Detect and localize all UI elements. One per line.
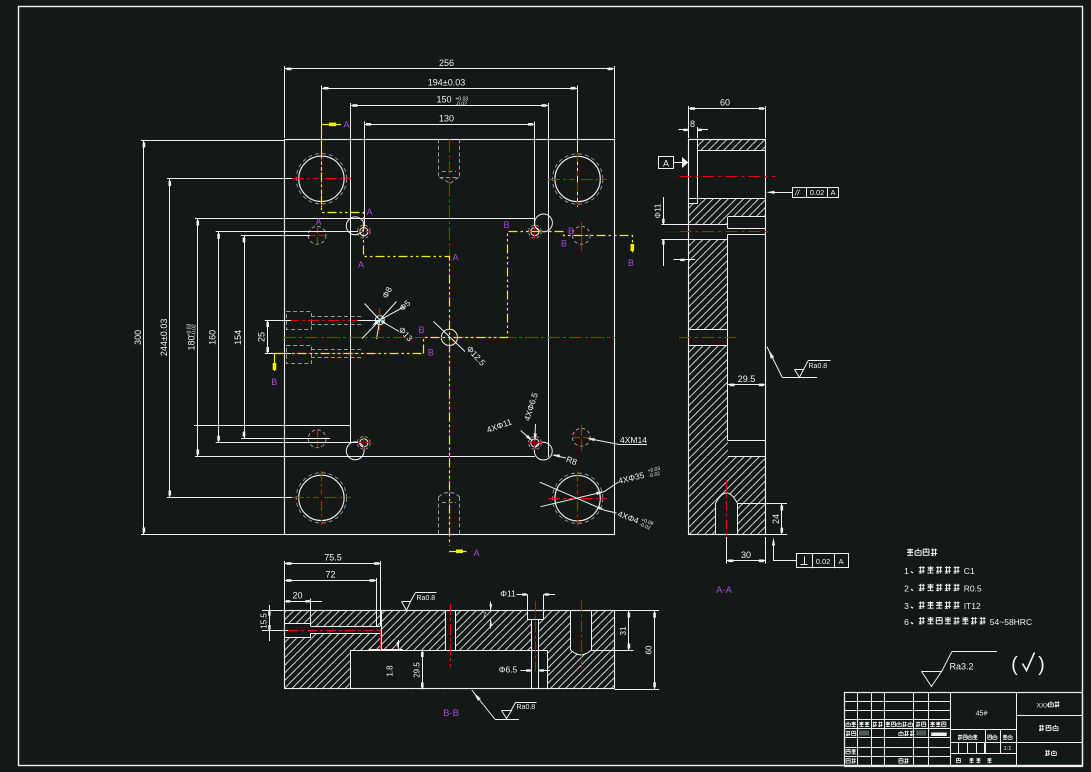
title row craft — [845, 759, 847, 764]
M14 hole left-bottom — [308, 430, 326, 448]
dim 1.8 — [381, 649, 403, 651]
callout 4xphi6.5 — [534, 424, 537, 440]
svg-text:2: 2 — [904, 584, 909, 594]
dim phi11 (B-B) — [527, 595, 529, 611]
B-B outline — [285, 611, 615, 689]
corner hole centerlines — [548, 498, 575, 500]
svg-text:1: 1 — [904, 566, 909, 576]
screw hole top-right — [535, 214, 553, 232]
svg-text:A-A: A-A — [716, 585, 733, 596]
svg-text:30: 30 — [741, 550, 751, 560]
drawing no — [1045, 750, 1050, 752]
dim 154 — [241, 235, 310, 237]
svg-text:IT12: IT12 — [964, 601, 981, 611]
stage mark row — [958, 735, 962, 737]
dim 60 (B-B) — [615, 610, 660, 612]
svg-text:1.8: 1.8 — [386, 665, 395, 677]
centerline horizontal (plate) — [283, 337, 615, 339]
screw hole bottom-left — [346, 442, 364, 460]
svg-text:): ) — [1038, 654, 1045, 676]
svg-text:Ra0.8: Ra0.8 — [809, 363, 828, 370]
side view hatch top band — [697, 139, 766, 150]
corner hole top-left — [299, 156, 344, 201]
svg-text:24: 24 — [771, 514, 781, 524]
svg-text:(: ( — [1011, 654, 1018, 676]
dim 194+-0.03 — [321, 86, 323, 208]
Ra0.8 top (B-B) — [402, 602, 411, 611]
svg-text:Ra0.8: Ra0.8 — [417, 595, 436, 602]
svg-text:A: A — [830, 188, 835, 197]
callout 4xphi35 tol — [541, 492, 605, 507]
svg-text:A: A — [343, 120, 349, 130]
svg-text:B: B — [628, 258, 634, 268]
corner hole centerlines — [548, 179, 575, 181]
svg-text:244±0.03: 244±0.03 — [159, 319, 169, 356]
side view outline — [689, 140, 766, 535]
svg-text:B: B — [271, 377, 277, 387]
svg-text:25: 25 — [257, 332, 267, 342]
svg-text:0.02: 0.02 — [816, 557, 831, 566]
dim 30 (side) — [726, 537, 728, 564]
side view hatch left col upper — [688, 217, 728, 225]
M14 hole right-bottom — [572, 428, 590, 446]
callout 4xM14 — [589, 439, 620, 445]
side view blind hole cover — [716, 493, 737, 535]
section A top arrow — [322, 124, 342, 126]
svg-text:-0.02: -0.02 — [456, 102, 468, 108]
callout 4xphi11 — [521, 431, 532, 441]
dim 160 — [216, 231, 358, 233]
svg-text:29.5: 29.5 — [738, 374, 756, 384]
svg-text:1:1: 1:1 — [1003, 746, 1011, 752]
title row design — [846, 731, 850, 733]
svg-text:7: 7 — [482, 611, 486, 620]
dim 15.5 — [262, 610, 284, 612]
svg-text:Φ6.5: Φ6.5 — [499, 665, 518, 675]
svg-text:C1: C1 — [964, 566, 975, 576]
top sprue slot (hidden) — [438, 139, 440, 177]
B-B phi6.5 hole — [531, 620, 533, 690]
section line A (yellow) — [322, 127, 450, 546]
side view hatch band2 — [688, 199, 765, 217]
dim 7 step (side) — [674, 259, 696, 261]
dim 25 — [265, 320, 291, 322]
dim phi11 (side left) — [661, 224, 695, 226]
perpendicularity frame — [797, 554, 849, 568]
title block outline — [845, 693, 1083, 767]
svg-text:45#: 45# — [976, 711, 988, 718]
svg-text://: // — [794, 189, 800, 198]
section A bottom arrow — [449, 551, 466, 553]
corner hole bottom-right — [555, 476, 600, 521]
side view centerlines — [679, 176, 775, 178]
title row labels — [847, 722, 849, 724]
centerline vertical (plate) — [449, 139, 451, 534]
svg-text:B: B — [503, 220, 509, 230]
left slot upper (hidden) — [287, 312, 312, 330]
dim 29.5 (side) — [728, 384, 766, 386]
B-B hatch body — [285, 611, 615, 689]
svg-text:B: B — [418, 325, 424, 335]
svg-text:4XM14: 4XM14 — [620, 435, 647, 445]
svg-text:54~58HRC: 54~58HRC — [990, 617, 1032, 627]
svg-text:60: 60 — [645, 645, 654, 654]
svg-text:A: A — [366, 207, 372, 217]
svg-text:A: A — [452, 253, 458, 263]
dim 7 cbore — [490, 602, 492, 611]
dim 180 tol — [195, 218, 535, 220]
bottom sprue slot (hidden) — [438, 497, 440, 535]
dim phi6.5 (B-B) — [521, 670, 532, 672]
svg-text:Ra3.2: Ra3.2 — [950, 662, 974, 672]
screw hole bottom-right — [534, 442, 552, 460]
corner hole centerlines — [292, 178, 319, 180]
svg-text:3: 3 — [904, 601, 909, 611]
svg-text:60: 60 — [720, 98, 730, 108]
svg-text:8: 8 — [690, 119, 695, 129]
svg-text:Φ11: Φ11 — [654, 203, 663, 218]
M14 hole left-top — [308, 226, 326, 244]
svg-text:A: A — [315, 217, 321, 227]
side view inner lines — [697, 139, 699, 204]
svg-text:0.02: 0.02 — [810, 188, 825, 197]
svg-text:256: 256 — [439, 58, 454, 68]
dim 8 (side) — [697, 127, 699, 138]
dim 256 — [284, 66, 286, 138]
svg-text:6: 6 — [904, 617, 909, 627]
B-B slot centerline — [262, 630, 296, 632]
Ra3.2 symbol — [922, 672, 942, 687]
svg-text:B-B: B-B — [443, 708, 459, 719]
svg-text:31: 31 — [619, 626, 628, 635]
svg-text:72: 72 — [325, 570, 335, 580]
svg-text:A: A — [838, 557, 843, 566]
svg-text:160: 160 — [208, 330, 218, 345]
dim 20 — [310, 599, 312, 624]
parallelism frame — [793, 188, 839, 198]
B-B phi11 hole — [527, 611, 529, 620]
svg-text:-0.02: -0.02 — [192, 324, 198, 336]
sheet row — [956, 758, 958, 762]
svg-text:180: 180 — [187, 335, 197, 350]
dim 130 — [364, 122, 366, 227]
M14 right-bottom centerline — [581, 425, 583, 429]
section line B (yellow) — [275, 353, 424, 355]
dim 150 tol — [350, 103, 352, 443]
callout R8 — [554, 455, 567, 458]
B-B step — [381, 611, 383, 649]
section B left arrow — [274, 354, 276, 371]
dim 60 (side) — [688, 106, 690, 138]
B-B center hole — [445, 611, 447, 651]
svg-text:130: 130 — [439, 113, 454, 123]
side view hatch left col mid — [688, 239, 728, 329]
title block mid rows — [950, 729, 1016, 731]
svg-text:29.5: 29.5 — [412, 662, 421, 678]
Ra0.8 side — [767, 347, 782, 378]
dim 75.5 — [284, 561, 286, 610]
dim 29.5 (B-B) — [422, 650, 424, 689]
callout 4xphi4 tol — [540, 482, 605, 510]
Ra0.8 bottom (B-B) — [472, 690, 495, 719]
svg-text:154: 154 — [233, 330, 243, 345]
svg-text:A: A — [358, 260, 364, 270]
datum A box — [659, 157, 674, 169]
M14 right-top centerline — [581, 222, 583, 226]
side view blind hole — [715, 503, 717, 535]
center hole phi12.5 — [441, 329, 457, 345]
svg-text:20: 20 — [292, 590, 302, 600]
B-B left slot — [285, 623, 311, 625]
svg-text:A: A — [473, 548, 479, 558]
svg-text:R0.5: R0.5 — [964, 584, 982, 594]
B-B channel — [311, 626, 380, 628]
svg-text:194±0.03: 194±0.03 — [428, 77, 465, 87]
dim 31 — [591, 650, 633, 652]
corner hole centerlines — [292, 497, 319, 499]
part name — [1039, 725, 1044, 727]
svg-text:Ra0.8: Ra0.8 — [517, 704, 536, 711]
B-B M14 hole — [570, 611, 572, 651]
left slot lower (hidden) — [287, 346, 312, 364]
title block grid — [844, 701, 950, 703]
svg-text:A: A — [663, 158, 669, 168]
side view hatch bottom block — [688, 456, 765, 534]
center pin hole starburst — [375, 316, 384, 325]
svg-text:150: 150 — [436, 95, 451, 105]
svg-text:Φ11: Φ11 — [500, 589, 516, 599]
dim 24 (side) — [737, 503, 787, 505]
svg-text:75.5: 75.5 — [324, 553, 342, 563]
svg-text:15.5: 15.5 — [259, 613, 268, 629]
section B right arrow — [631, 244, 635, 251]
svg-text:B: B — [428, 348, 434, 358]
misc extension lines — [194, 425, 351, 427]
B-B plain features cover — [285, 624, 311, 638]
title block right rows — [1016, 715, 1082, 717]
svg-text:B: B — [568, 226, 574, 236]
M14 hole right-top — [572, 226, 590, 244]
main view: plate outline — [285, 140, 615, 535]
B-B pocket — [350, 650, 547, 652]
title row examine — [845, 749, 847, 754]
screw hole top-left — [346, 217, 364, 235]
svg-text:300: 300 — [133, 330, 143, 345]
dim 300 — [141, 140, 284, 142]
side view hatch left col lower — [688, 345, 728, 456]
svg-text:B: B — [561, 239, 567, 249]
corner hole bottom-left — [299, 475, 344, 520]
corner hole top-right — [555, 156, 600, 201]
dim 72 — [376, 578, 378, 626]
dim 244+-0.03 — [167, 178, 298, 180]
tech notes title — [907, 549, 913, 551]
